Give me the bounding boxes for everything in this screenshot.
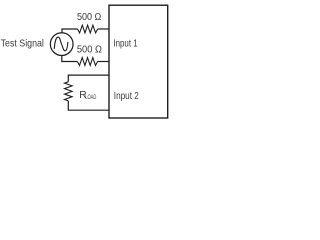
svg-text:Test Signal: Test Signal [1,38,44,49]
device box U1 (Input 1 / Input 2 DUT) [109,5,168,118]
svg-text:500 Ω: 500 Ω [77,44,102,55]
wire from source top to resistor R1 [62,29,78,33]
svg-text:Input 2: Input 2 [114,91,139,102]
wire Input 2 + to RLOAD top [68,75,109,82]
wire from source bottom to resistor R2 [62,55,78,61]
AC source sine wave [54,37,68,51]
wire RLOAD bottom to Input 2 - [68,101,109,110]
wire R2 to box Input 1 - [98,61,109,63]
svg-text:500 Ω: 500 Ω [77,12,102,23]
resistor R2 500 ohm (middle) [77,58,97,66]
resistor RLOAD (vertical) [65,82,73,101]
svg-text:Input 1: Input 1 [113,38,137,49]
resistor R1 500 ohm (top) [78,25,98,33]
svg-text:LOAD: LOAD [85,94,96,101]
AC source V1 circle [50,33,73,56]
wire R1 to box Input 1 + [98,28,109,30]
